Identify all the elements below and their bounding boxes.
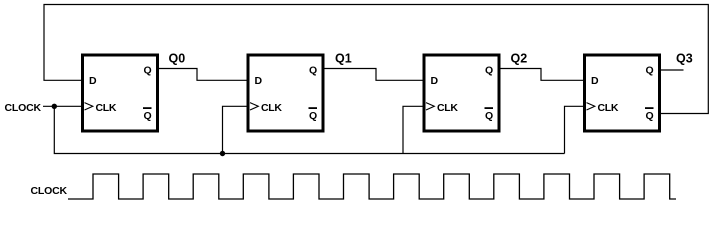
wire CLOCK input to U1 CLK <box>43 105 83 107</box>
D flip-flop U2 <box>248 55 323 131</box>
wire Q3 stub <box>661 69 684 71</box>
D flip-flop U1 <box>83 55 158 131</box>
wire clock tap to U4 CLK <box>565 106 585 153</box>
svg-text:CLK: CLK <box>96 102 117 114</box>
svg-text:CLK: CLK <box>598 102 619 114</box>
svg-text:Q3: Q3 <box>676 51 693 65</box>
node Q3 label <box>676 51 693 65</box>
svg-text:Q: Q <box>646 110 654 122</box>
svg-text:Q2: Q2 <box>511 51 528 65</box>
D flip-flop U3 <box>424 55 499 131</box>
svg-text:Q: Q <box>646 65 654 77</box>
svg-text:Q1: Q1 <box>335 51 352 65</box>
wire clock tap to U3 CLK <box>403 106 424 153</box>
D flip-flop U4 <box>585 55 660 131</box>
svg-text:D: D <box>591 75 599 87</box>
wire Q2 to D of U4 <box>501 69 584 81</box>
node Q0 label <box>169 51 186 65</box>
clock waveform trace <box>68 174 676 199</box>
wire Q1 to D of U3 <box>325 69 423 81</box>
svg-text:CLK: CLK <box>261 102 282 114</box>
node Q2 label <box>511 51 528 65</box>
node CLOCK label (schematic) <box>5 102 42 114</box>
node Q1 label <box>335 51 352 65</box>
junction clock node at U1 <box>52 104 57 109</box>
wire feedback Q-bar of U4 to D of U1 <box>44 5 708 114</box>
wire clock tap to U2 CLK <box>223 106 249 153</box>
svg-text:Q: Q <box>485 110 493 122</box>
svg-text:Q: Q <box>144 110 152 122</box>
svg-text:Q: Q <box>309 110 317 122</box>
svg-text:Q: Q <box>485 65 493 77</box>
svg-text:CLK: CLK <box>437 102 458 114</box>
node CLOCK label (waveform) <box>31 185 68 197</box>
svg-text:Q0: Q0 <box>169 51 186 65</box>
svg-text:Q: Q <box>309 65 317 77</box>
svg-text:D: D <box>255 75 263 87</box>
svg-text:Q: Q <box>144 65 152 77</box>
svg-text:D: D <box>89 75 97 87</box>
svg-text:CLOCK: CLOCK <box>5 102 42 114</box>
wire Q0 to D of U2 <box>159 69 247 81</box>
svg-text:D: D <box>431 75 439 87</box>
junction clock rail tap U2 <box>220 151 225 156</box>
svg-text:CLOCK: CLOCK <box>31 185 68 197</box>
wire clock drop to bottom rail <box>54 106 564 153</box>
